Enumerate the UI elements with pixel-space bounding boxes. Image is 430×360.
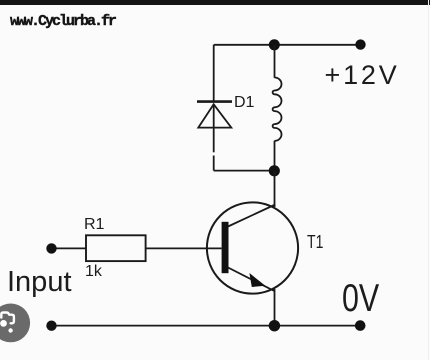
label +12V xyxy=(325,60,400,91)
node ground left terminal xyxy=(46,321,56,331)
google lens badge xyxy=(0,303,35,349)
label D1 xyxy=(234,94,254,112)
resistor R1 xyxy=(86,235,146,261)
wire diode top vertical xyxy=(213,45,215,101)
wire emitter vertical xyxy=(274,289,276,326)
transistor T1 xyxy=(207,202,298,293)
wire collector vertical xyxy=(274,171,276,207)
label 1k xyxy=(85,263,102,281)
label Input xyxy=(7,266,72,299)
label 0V xyxy=(342,277,379,321)
wire ground rail xyxy=(52,325,361,327)
node junction (coil bottom / diode / collector) xyxy=(269,165,280,176)
scan edge line right xyxy=(428,0,430,360)
wire top rail xyxy=(214,44,361,46)
wire diode bottom horizontal xyxy=(214,170,275,172)
node junction emitter/ground xyxy=(269,320,280,331)
node +12V terminal xyxy=(355,39,365,49)
label T1 xyxy=(307,232,323,253)
watermark www.Cyclurba.fr xyxy=(10,13,115,30)
node input terminal xyxy=(46,243,56,253)
node junction top (coil to +12V rail) xyxy=(269,39,280,50)
wire base (input to transistor) xyxy=(52,247,87,249)
top black bar xyxy=(0,0,430,5)
node 0V terminal xyxy=(355,320,366,331)
label R1 xyxy=(84,216,104,234)
diode D1 xyxy=(197,102,232,171)
inductor L1 (relay coil) xyxy=(273,45,282,171)
